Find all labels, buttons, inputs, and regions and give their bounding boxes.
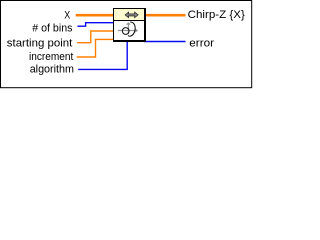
svg-text:X: X: [64, 9, 71, 21]
op icon top section (cream): [114, 9, 144, 20]
svg-text:starting point: starting point: [7, 38, 73, 50]
icon axes right arrowhead: [135, 29, 137, 32]
svg-text:error: error: [189, 38, 214, 50]
svg-text:increment: increment: [29, 51, 73, 63]
op icon bottom section (white): [114, 21, 144, 40]
wire error output (blue i32): [144, 41, 186, 43]
wire starting point (orange dbl): [77, 31, 114, 43]
svg-text:algorithm: algorithm: [30, 64, 74, 76]
icon axes horizontal (gray): [118, 30, 137, 32]
wire algorithm (blue enum): [78, 41, 127, 69]
wire increment (orange dbl): [77, 39, 114, 57]
svg-text:# of bins: # of bins: [32, 22, 73, 34]
wire X input (orange array): [76, 14, 114, 17]
icon spiral inner loop: [122, 28, 129, 35]
svg-text:Chirp-Z {X}: Chirp-Z {X}: [188, 9, 246, 21]
wire # of bins (blue i32): [77, 23, 114, 27]
op icon U1 Chirp-Z VI border box: [113, 8, 146, 42]
wire Chirp-Z {X} output (orange array): [145, 14, 186, 17]
icon axes vertical (gray): [127, 23, 129, 34]
icon axes top arrowhead: [127, 23, 130, 25]
icon double-headed arrow: [125, 12, 138, 18]
icon spiral outer arc: [128, 22, 135, 36]
